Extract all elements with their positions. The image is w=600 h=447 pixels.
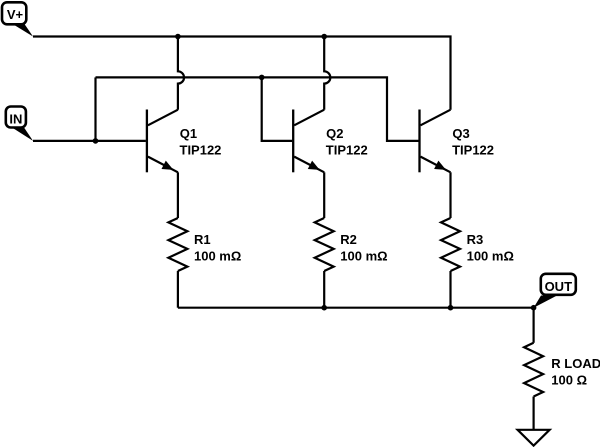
svg-text:Q2: Q2 [326, 126, 343, 141]
net flag V+ [2, 2, 33, 36]
ground [518, 430, 550, 446]
net flag IN [6, 107, 33, 141]
wire Q2 emitter to R2 [323, 172, 325, 218]
wire R LOAD to ground [532, 397, 534, 430]
wire output rail [178, 307, 534, 309]
node junction IN wire / base riser [93, 138, 99, 144]
svg-text:100 mΩ: 100 mΩ [340, 248, 387, 263]
node OUT junction [531, 305, 537, 311]
node junction top rail / Q1 collector [175, 34, 181, 40]
wire Q3 emitter to R3 [449, 172, 451, 218]
svg-text:TIP122: TIP122 [180, 142, 222, 157]
label R LOAD value 100 Ohm [551, 372, 587, 387]
svg-text:R2: R2 [340, 232, 357, 247]
label R1 [194, 232, 211, 247]
wire V+ top rail to Q3 collector [33, 37, 451, 110]
wire base riser [94, 77, 96, 140]
transistor Q3 [420, 110, 451, 173]
wire R2 to output rail [323, 271, 325, 308]
label R2 value 100 mOhm [340, 248, 387, 263]
label Q3 [452, 126, 469, 141]
resistor R LOAD [524, 343, 543, 397]
transistor Q1 [147, 110, 178, 173]
svg-text:R LOAD: R LOAD [551, 356, 600, 371]
wire Q2 collector drop with hop over base rail [324, 37, 330, 110]
wire OUT to R LOAD [532, 308, 534, 343]
wire Q1 emitter to R1 [177, 172, 179, 218]
label Q1 [180, 126, 197, 141]
svg-text:TIP122: TIP122 [326, 142, 368, 157]
net flag OUT [534, 274, 576, 308]
svg-text:100 mΩ: 100 mΩ [467, 248, 514, 263]
wire R3 to output rail [449, 271, 451, 308]
transistor Q2 [293, 110, 324, 173]
wire R1 to output rail [177, 271, 179, 308]
node junction output rail / R3 [448, 305, 454, 311]
svg-text:IN: IN [9, 111, 22, 126]
label R1 value 100 mOhm [194, 248, 241, 263]
resistor R1 [168, 218, 187, 271]
svg-text:OUT: OUT [545, 279, 573, 294]
wire Q1 collector drop with hop over base rail [178, 37, 184, 110]
wire base rail to Q3 base [96, 77, 419, 140]
node junction output rail / R2 [321, 305, 327, 311]
label R2 [340, 232, 357, 247]
label Q3 value TIP122 [452, 142, 494, 157]
svg-text:100 Ω: 100 Ω [551, 372, 587, 387]
label Q1 value TIP122 [180, 142, 222, 157]
label R3 value 100 mOhm [467, 248, 514, 263]
resistor R2 [315, 218, 334, 271]
label Q2 value TIP122 [326, 142, 368, 157]
label R3 [467, 232, 484, 247]
node junction base rail / Q2 base [259, 75, 265, 81]
svg-text:V+: V+ [7, 7, 24, 22]
wire IN to Q1 base [33, 140, 146, 142]
node junction top rail / Q2 collector [321, 34, 327, 40]
label Q2 [326, 126, 343, 141]
resistor R3 [441, 218, 460, 271]
svg-text:TIP122: TIP122 [452, 142, 494, 157]
svg-text:100 mΩ: 100 mΩ [194, 248, 241, 263]
svg-text:Q3: Q3 [452, 126, 469, 141]
label R LOAD [551, 356, 600, 371]
svg-text:R1: R1 [194, 232, 211, 247]
wire Q2 base feed [262, 77, 293, 140]
svg-text:Q1: Q1 [180, 126, 197, 141]
svg-text:R3: R3 [467, 232, 484, 247]
